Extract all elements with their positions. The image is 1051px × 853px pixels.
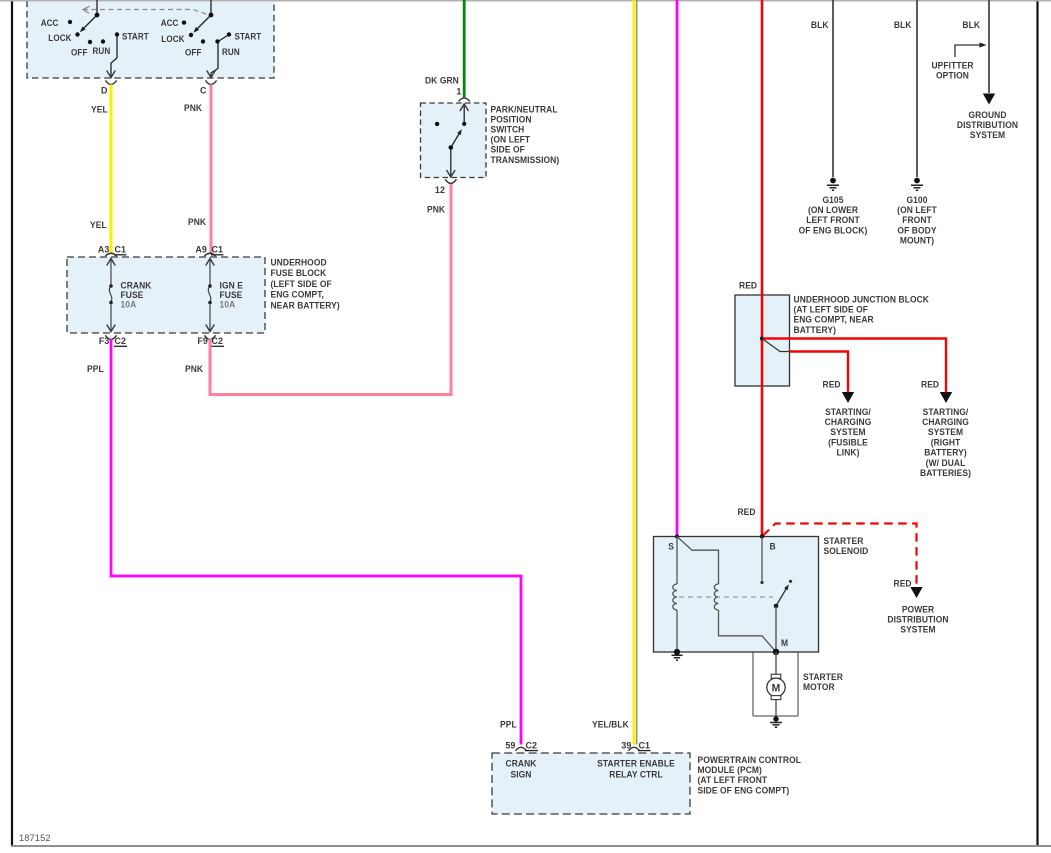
- svg-text:C2: C2: [115, 336, 127, 346]
- upfitter option tap: [955, 45, 980, 57]
- wire PPL F3 to PCM 59: [111, 339, 521, 745]
- svg-text:PNK: PNK: [185, 364, 204, 374]
- svg-text:SIDE OF: SIDE OF: [491, 144, 525, 154]
- solenoid switch blade: [776, 587, 788, 607]
- svg-text:C: C: [200, 85, 207, 95]
- svg-text:1: 1: [456, 86, 461, 96]
- svg-text:BLK: BLK: [894, 20, 912, 30]
- svg-text:C2: C2: [526, 740, 538, 750]
- svg-text:(RIGHT: (RIGHT: [931, 437, 961, 447]
- underhood fuse block box: [67, 257, 265, 333]
- starter motor housing: [753, 653, 798, 717]
- svg-text:BLK: BLK: [811, 20, 829, 30]
- svg-text:M: M: [781, 638, 788, 648]
- wire PNK ignition C to fuse A9: [210, 85, 213, 254]
- svg-text:RED: RED: [739, 280, 757, 290]
- svg-text:SIDE OF ENG COMPT): SIDE OF ENG COMPT): [697, 785, 789, 795]
- svg-text:SYSTEM: SYSTEM: [970, 130, 1005, 140]
- svg-text:PARK/NEUTRAL: PARK/NEUTRAL: [491, 104, 559, 114]
- wire YEL/BLK top to PCM 39: [633, 0, 636, 745]
- svg-text:TRANSMISSION): TRANSMISSION): [491, 155, 560, 165]
- svg-text:(LEFT SIDE OF: (LEFT SIDE OF: [271, 279, 332, 289]
- svg-text:STARTING/: STARTING/: [825, 407, 871, 417]
- svg-text:RED: RED: [822, 379, 840, 389]
- svg-text:STARTER ENABLE: STARTER ENABLE: [597, 758, 675, 768]
- terminal M: [773, 649, 779, 655]
- ignition switch left half S1a: [82, 0, 118, 77]
- solenoid contact from B: [761, 537, 763, 582]
- svg-text:F9: F9: [197, 336, 208, 346]
- fuse CRANK FUSE 10A: [109, 259, 112, 332]
- pin arrow D: [107, 71, 116, 78]
- pin arrow C: [207, 71, 216, 78]
- ganged linkage dashed: [83, 6, 209, 15]
- svg-text:10A: 10A: [120, 299, 136, 309]
- svg-text:PPL: PPL: [87, 364, 104, 374]
- mechanical linkage dashed: [679, 596, 773, 598]
- svg-text:DK GRN: DK GRN: [425, 75, 459, 85]
- connector pin 12: [445, 179, 456, 183]
- wire YEL ignition D to fuse A3: [110, 85, 113, 254]
- svg-text:A3: A3: [98, 244, 110, 254]
- svg-text:NEAR BATTERY): NEAR BATTERY): [271, 300, 340, 310]
- park/neutral position switch box: [421, 103, 487, 178]
- svg-text:LOCK: LOCK: [161, 34, 185, 44]
- ground G105: [830, 178, 836, 184]
- svg-text:PNK: PNK: [427, 204, 446, 214]
- hold-in coil path: [673, 537, 677, 652]
- svg-text:CHARGING: CHARGING: [922, 417, 969, 427]
- svg-text:BATTERY): BATTERY): [794, 325, 837, 335]
- svg-text:DISTRIBUTION: DISTRIBUTION: [957, 120, 1018, 130]
- wire PNK F9 to park/neutral 12: [210, 184, 451, 395]
- connector A9 C1: [204, 253, 215, 256]
- svg-text:(FUSIBLE: (FUSIBLE: [828, 437, 868, 447]
- svg-text:CHARGING: CHARGING: [825, 417, 872, 427]
- fuse IGN E FUSE 10A: [208, 259, 211, 332]
- svg-text:OFF: OFF: [185, 47, 201, 57]
- svg-text:(AT LEFT FRONT: (AT LEFT FRONT: [697, 775, 767, 785]
- wire RED top to solenoid B: [761, 0, 764, 537]
- right frame border: [1036, 0, 1038, 846]
- svg-text:BATTERIES): BATTERIES): [920, 468, 971, 478]
- blade arrow right: [192, 27, 199, 34]
- svg-text:C1: C1: [212, 244, 224, 254]
- dashed RED to power distribution: [763, 524, 917, 589]
- svg-text:RED: RED: [737, 507, 755, 517]
- svg-text:(AT LEFT SIDE OF: (AT LEFT SIDE OF: [794, 304, 869, 314]
- wire BLK 1 to G105: [832, 0, 834, 177]
- svg-text:D: D: [101, 85, 108, 95]
- red branch to starting/charging right battery: [762, 339, 946, 393]
- svg-text:START: START: [122, 31, 150, 41]
- svg-text:CRANK: CRANK: [506, 758, 538, 768]
- blade arrow left: [78, 26, 85, 33]
- svg-text:SIGN: SIGN: [510, 769, 531, 779]
- junction node: [760, 337, 764, 341]
- svg-text:LINK): LINK): [837, 447, 860, 457]
- svg-text:RUN: RUN: [92, 46, 110, 56]
- pull-in coil path: [677, 537, 776, 652]
- svg-text:SYSTEM: SYSTEM: [928, 427, 963, 437]
- bottom frame line: [11, 845, 1051, 847]
- svg-text:RED: RED: [894, 578, 912, 588]
- svg-text:12: 12: [435, 185, 445, 195]
- connector C: [205, 80, 216, 84]
- svg-text:OFF: OFF: [71, 47, 87, 57]
- svg-text:OF ENG BLOCK): OF ENG BLOCK): [799, 225, 868, 235]
- svg-text:FRONT: FRONT: [902, 215, 932, 225]
- connector D: [105, 80, 116, 84]
- svg-text:POWER: POWER: [902, 604, 935, 614]
- svg-text:LOCK: LOCK: [48, 33, 72, 43]
- motor ground: [773, 716, 778, 721]
- svg-text:FUSE BLOCK: FUSE BLOCK: [271, 268, 327, 278]
- svg-text:SWITCH: SWITCH: [491, 124, 525, 134]
- svg-text:C2: C2: [212, 336, 224, 346]
- contact dots left switch: [68, 13, 119, 45]
- svg-text:PPL: PPL: [500, 719, 517, 729]
- svg-text:DISTRIBUTION: DISTRIBUTION: [887, 614, 948, 624]
- wire DK GRN park/neutral 1 to top: [463, 0, 466, 97]
- svg-text:(W/ DUAL: (W/ DUAL: [926, 458, 966, 468]
- terminal B: [760, 534, 764, 538]
- svg-text:SOLENOID: SOLENOID: [823, 546, 868, 556]
- svg-text:M: M: [772, 682, 781, 694]
- svg-text:MOUNT): MOUNT): [900, 235, 934, 245]
- svg-text:A9: A9: [195, 244, 207, 254]
- svg-text:RED: RED: [921, 379, 939, 389]
- svg-text:G100: G100: [906, 195, 927, 205]
- connector 59 C2: [515, 747, 526, 751]
- svg-text:(ON LEFT: (ON LEFT: [491, 134, 531, 144]
- svg-text:YEL/BLK: YEL/BLK: [592, 719, 629, 729]
- svg-text:ENG COMPT,: ENG COMPT,: [271, 289, 325, 299]
- connector F3 C2: [105, 335, 116, 339]
- wire PPL top to solenoid S: [676, 0, 679, 537]
- svg-text:G105: G105: [822, 195, 843, 205]
- svg-text:39: 39: [621, 740, 631, 750]
- svg-text:OF BODY: OF BODY: [897, 225, 936, 235]
- connector pin 1: [459, 98, 470, 102]
- svg-text:UNDERHOOD: UNDERHOOD: [271, 257, 327, 267]
- svg-text:ACC: ACC: [161, 17, 179, 27]
- wire BLK 3 to ground distribution: [988, 0, 990, 93]
- terminal S: [675, 535, 679, 539]
- svg-text:LEFT FRONT: LEFT FRONT: [806, 215, 860, 225]
- svg-text:GROUND: GROUND: [968, 110, 1006, 120]
- svg-text:STARTING/: STARTING/: [923, 407, 969, 417]
- connector A3 C1: [105, 253, 116, 256]
- svg-text:MODULE (PCM): MODULE (PCM): [697, 765, 761, 775]
- black tap and red branch to starting/charging fusible link: [762, 339, 790, 352]
- svg-text:STARTER: STARTER: [803, 672, 843, 682]
- svg-text:C1: C1: [639, 740, 651, 750]
- svg-text:START: START: [234, 31, 262, 41]
- svg-text:OPTION: OPTION: [936, 70, 969, 80]
- svg-text:PNK: PNK: [184, 103, 203, 113]
- svg-text:RUN: RUN: [222, 46, 240, 56]
- PCM box: [492, 753, 690, 814]
- svg-text:10A: 10A: [219, 299, 235, 309]
- svg-text:BATTERY): BATTERY): [924, 447, 967, 457]
- ground G100: [914, 178, 920, 184]
- svg-text:POSITION: POSITION: [491, 114, 532, 124]
- underhood junction block: [735, 295, 790, 386]
- starter solenoid box: [654, 537, 819, 653]
- svg-text:(ON LEFT: (ON LEFT: [897, 205, 937, 215]
- svg-text:BLK: BLK: [962, 20, 980, 30]
- svg-text:B: B: [770, 541, 776, 551]
- svg-text:POWERTRAIN CONTROL: POWERTRAIN CONTROL: [697, 755, 801, 765]
- svg-text:UNDERHOOD JUNCTION BLOCK: UNDERHOOD JUNCTION BLOCK: [794, 294, 930, 304]
- top frame line: [0, 0, 1051, 2]
- solenoid ground at S: [674, 649, 680, 655]
- ignition switch box: [27, 0, 274, 78]
- svg-text:ACC: ACC: [41, 17, 59, 27]
- svg-text:SYSTEM: SYSTEM: [900, 624, 935, 634]
- contact dots right switch: [182, 13, 231, 44]
- svg-text:YEL: YEL: [90, 220, 107, 230]
- left frame border: [11, 0, 13, 846]
- svg-text:RELAY CTRL: RELAY CTRL: [609, 769, 663, 779]
- park/neutral switch internals: [451, 104, 464, 177]
- svg-text:ENG COMPT, NEAR: ENG COMPT, NEAR: [794, 314, 875, 324]
- connector F9 C2: [204, 335, 215, 339]
- ignition switch right half S1b: [195, 0, 229, 77]
- svg-text:UPFITTER: UPFITTER: [931, 60, 974, 70]
- svg-text:STARTER: STARTER: [823, 536, 863, 546]
- svg-text:187152: 187152: [19, 833, 51, 843]
- svg-text:SYSTEM: SYSTEM: [830, 427, 865, 437]
- svg-text:S: S: [668, 541, 674, 551]
- svg-text:PNK: PNK: [188, 217, 207, 227]
- wire BLK 2 to G100: [916, 0, 918, 177]
- svg-text:59: 59: [505, 740, 515, 750]
- starter motor: [775, 652, 777, 675]
- svg-text:YEL: YEL: [91, 104, 108, 114]
- connector 39 C1: [628, 747, 639, 751]
- svg-text:MOTOR: MOTOR: [803, 682, 835, 692]
- svg-text:(ON LOWER: (ON LOWER: [808, 205, 859, 215]
- svg-text:C1: C1: [115, 244, 127, 254]
- svg-text:F3: F3: [99, 336, 110, 346]
